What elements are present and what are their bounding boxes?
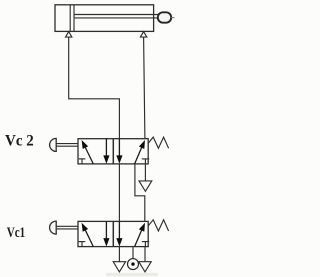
cylinder rod end knob [158,12,171,22]
valve Vc2 right box blocked port T [142,159,149,164]
scan smudge [106,273,158,276]
valve Vc1 right box down arrow 4-5 [116,221,122,246]
wire Vc1 port 5 to exhaust [118,247,120,262]
wire cylinder left port to Vc2 top port 4 [69,37,120,139]
pressure source circle [128,259,139,270]
cylinder rod [74,15,159,18]
svg-text:Vc1: Vc1 [7,225,26,241]
valve Vc2 box divider [112,139,114,164]
exhaust triangle below Vc1 right [139,262,151,272]
valve Vc1 push button stem [56,226,78,229]
valve Vc1 left box arrow 1-4 [82,223,94,247]
valve Vc2 left box arrow 1-4 [82,140,94,164]
cylinder left port triangle [66,32,72,37]
valve Vc2 left box blocked port T [79,159,86,164]
valve Vc1 right box arrow 1-2 [135,223,145,247]
valve Vc2 right box arrow 1-2 [135,140,145,164]
valve Vc1 left box down arrow 2-3 [103,221,109,246]
valve Vc1 left box blocked port T [79,242,86,247]
cylinder piston [70,5,74,32]
valve Vc1 return spring [148,220,168,231]
valve Vc2 body boxes [78,139,148,164]
wire Vc2 port 1 to Vc1 port 2 [135,164,145,222]
wire Vc1 port 1 to pressure source [132,247,134,259]
wire Vc2 port 3 to exhaust [144,164,146,181]
valve Vc1 body boxes [78,221,148,246]
wire cylinder right port to Vc2 top port 2 [144,37,145,139]
cylinder body [55,5,154,32]
svg-text:Vc 2: Vc 2 [5,132,34,149]
cylinder right port triangle [140,32,146,37]
valve Vc1 box divider [112,221,114,246]
exhaust triangle below Vc2 [139,181,152,191]
valve Vc2 left box down arrow 2-3 [103,139,109,164]
pressure source dot [131,262,134,265]
wire Vc1 port 3 to exhaust [144,247,146,262]
valve Vc1 push button [50,221,57,234]
valve Vc2 right box down arrow 4-5 [116,139,122,164]
wire Vc2 port 5 to Vc1 port 4 [118,164,120,222]
valve Vc2 push button stem [56,144,78,147]
valve Vc1 right box blocked port T [142,242,149,247]
valve Vc2 push button [50,138,57,151]
valve Vc2 return spring [148,137,168,148]
exhaust triangle below Vc1 left [113,262,125,272]
